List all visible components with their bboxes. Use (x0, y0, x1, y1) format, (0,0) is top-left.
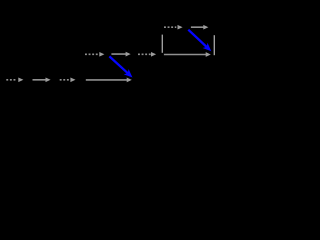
row 1: long fine propagator arrow L1 (86, 78, 132, 83)
row 2: coarse propagator dashed arrow G4 (138, 52, 156, 57)
row 1: fine propagator solid arrow F1 (33, 77, 51, 82)
row 2: coarse propagator dashed arrow G3 (85, 52, 104, 57)
blue correction arrow B1 (109, 56, 135, 80)
row 1: coarse propagator dashed arrow G2 (60, 77, 76, 82)
row 2: long fine propagator arrow L2 (164, 52, 211, 57)
sync line V3 (end of row-3 interval) (213, 35, 215, 55)
row 2: fine propagator solid arrow F2 (111, 52, 130, 57)
row 1: coarse propagator dashed arrow G1 (6, 77, 23, 82)
blue correction arrow B2 (188, 30, 213, 54)
row 3: coarse propagator dashed arrow G5 (164, 25, 183, 30)
sync line V2 (start of row-3 interval) (161, 35, 163, 53)
row 3: fine propagator solid arrow F3 (191, 25, 209, 30)
